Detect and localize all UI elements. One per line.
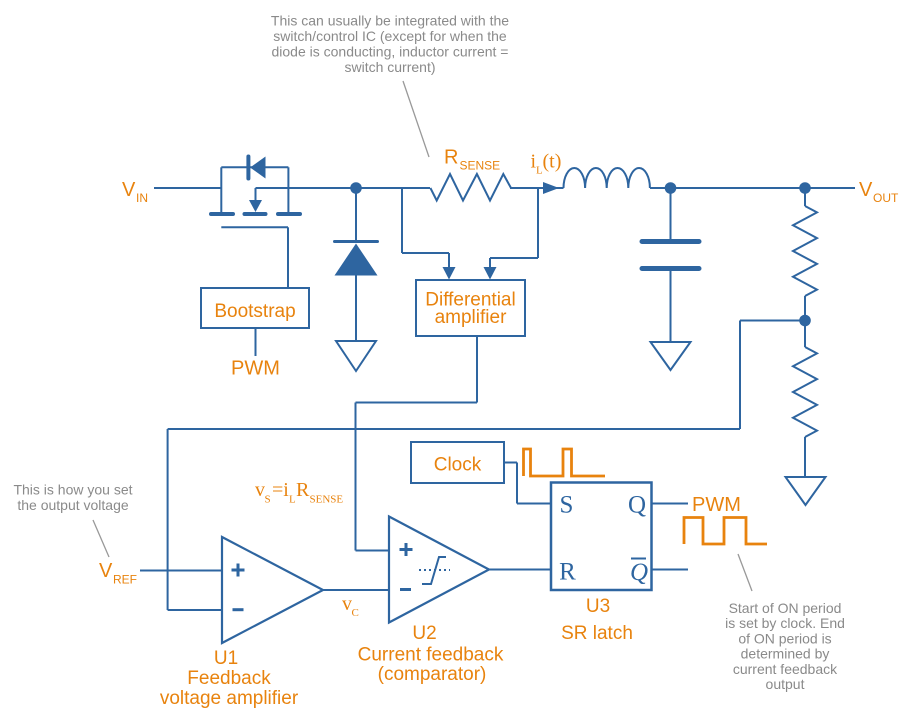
- label vc: [342, 593, 359, 619]
- svg-text:Q: Q: [628, 492, 646, 519]
- label U1: [160, 648, 299, 709]
- annotation left pointer line: [93, 520, 109, 557]
- label U2: [358, 623, 504, 685]
- op-amp U2 comparator: [389, 517, 489, 623]
- node VIN label: [122, 179, 148, 205]
- wire bootstrap PWM stub: [255, 328, 257, 356]
- svg-text:R: R: [444, 147, 458, 169]
- U1 minus input mark: [233, 608, 244, 611]
- node VREF label: [99, 560, 137, 587]
- svg-text:determined by: determined by: [741, 646, 830, 662]
- ground under R2: [786, 477, 826, 505]
- capacitor C1: [642, 188, 699, 341]
- arrow into diff amp right: [484, 267, 497, 280]
- latch U3 box: [551, 483, 652, 591]
- wire Q output: [652, 503, 689, 505]
- node divider top junction: [799, 182, 811, 194]
- wire switch drain to RSENSE: [288, 187, 430, 189]
- svg-text:(comparator): (comparator): [378, 664, 487, 685]
- svg-text:This is how you set: This is how you set: [13, 482, 132, 498]
- svg-text:R: R: [296, 479, 310, 501]
- wire RSENSE to inductor: [510, 187, 564, 189]
- PWM waveform: [684, 518, 767, 545]
- wire U2 output to latch R: [489, 569, 551, 571]
- svg-text:U1: U1: [214, 648, 238, 669]
- wire to R1: [804, 188, 806, 206]
- ground under D1: [336, 341, 376, 371]
- bootstrap block: [201, 288, 309, 328]
- svg-text:This can usually be integrated: This can usually be integrated with the: [271, 13, 509, 29]
- wire VIN to switch: [154, 187, 221, 189]
- svg-text:switch/control IC (except for: switch/control IC (except for when the: [273, 28, 507, 44]
- node capacitor junction: [665, 182, 677, 194]
- wire R1 to node: [804, 296, 806, 347]
- wire VREF to U1: [140, 570, 222, 572]
- svg-text:of ON period is: of ON period is: [738, 630, 831, 646]
- diode D1 (freewheeling): [335, 188, 378, 341]
- svg-text:switch current): switch current): [344, 59, 435, 75]
- pin Qbar: [630, 559, 648, 586]
- wire sense tap right: [490, 188, 538, 269]
- annotation left: [13, 482, 132, 514]
- svg-text:is set by clock. End: is set by clock. End: [725, 615, 845, 631]
- ground under C1: [651, 342, 691, 370]
- label PWM output: [692, 494, 741, 516]
- svg-text:diode is conducting, inductor: diode is conducting, inductor current =: [272, 44, 509, 60]
- svg-text:L: L: [289, 494, 296, 506]
- svg-text:OUT: OUT: [873, 191, 899, 205]
- label differential amplifier: [425, 290, 515, 329]
- svg-text:Q: Q: [630, 559, 648, 586]
- svg-text:V: V: [859, 179, 873, 201]
- svg-text:U2: U2: [412, 623, 436, 644]
- current arrow iL: [543, 182, 559, 194]
- svg-text:=i: =i: [272, 479, 289, 501]
- resistor RSENSE: [430, 174, 511, 201]
- svg-text:SR latch: SR latch: [561, 623, 633, 644]
- label PWM bootstrap input: [231, 358, 280, 380]
- svg-text:the output voltage: the output voltage: [17, 497, 129, 513]
- annotation top pointer line: [403, 81, 429, 157]
- op-amp block differential amplifier: [416, 280, 525, 336]
- svg-text:v: v: [342, 593, 352, 615]
- wire sense tap left: [402, 188, 449, 269]
- label iL(t): [531, 151, 562, 177]
- resistor R1 (divider upper): [793, 206, 817, 296]
- svg-text:C: C: [352, 607, 359, 619]
- resistor R2 (divider lower): [793, 347, 817, 437]
- label bootstrap: [214, 301, 295, 322]
- label VOUT: [859, 179, 899, 205]
- svg-text:V: V: [122, 179, 136, 201]
- svg-text:U3: U3: [586, 596, 610, 617]
- U2 minus input mark: [400, 588, 411, 591]
- svg-text:V: V: [99, 560, 113, 582]
- svg-text:output: output: [766, 676, 805, 692]
- annotation bottom right: [725, 600, 845, 692]
- wire R2 to ground: [804, 437, 806, 477]
- wire U1 output: [323, 589, 389, 591]
- clock waveform: [524, 449, 606, 476]
- svg-text:amplifier: amplifier: [435, 307, 507, 328]
- svg-text:IN: IN: [136, 191, 148, 205]
- node feedback junction: [799, 315, 811, 327]
- label U3: [561, 596, 633, 644]
- U2 plus input mark: [400, 543, 413, 556]
- svg-text:v: v: [255, 479, 265, 501]
- svg-text:Current feedback: Current feedback: [358, 645, 504, 666]
- svg-text:SENSE: SENSE: [460, 159, 501, 173]
- svg-text:(t): (t): [543, 151, 562, 173]
- op-amp U1: [222, 537, 323, 643]
- label clock: [434, 455, 482, 476]
- U2 hysteresis symbol: [419, 557, 450, 584]
- svg-text:SENSE: SENSE: [310, 494, 344, 506]
- U1 plus input mark: [232, 564, 245, 577]
- transistor Q1 (PMOS switch with body diode): [211, 157, 300, 289]
- node switch-diode junction: [350, 182, 362, 194]
- inductor L1: [564, 168, 650, 188]
- svg-text:S: S: [560, 492, 574, 519]
- Qbar overline: [631, 558, 646, 560]
- svg-text:Bootstrap: Bootstrap: [214, 301, 295, 322]
- svg-text:R: R: [559, 559, 576, 586]
- wire feedback from divider to U1: [168, 321, 805, 611]
- label vs = iL RSENSE: [255, 479, 343, 506]
- label RSENSE: [444, 147, 500, 173]
- wire diff amp output to U2: [356, 336, 478, 551]
- svg-text:Start of ON period: Start of ON period: [729, 600, 842, 616]
- svg-text:PWM: PWM: [231, 358, 280, 380]
- svg-text:PWM: PWM: [692, 494, 741, 516]
- annotation bottom pointer line: [738, 554, 752, 591]
- svg-text:REF: REF: [113, 573, 137, 587]
- annotation top: [271, 13, 509, 76]
- wire inductor to VOUT: [650, 187, 855, 189]
- svg-text:Feedback: Feedback: [187, 668, 271, 689]
- svg-text:S: S: [265, 494, 271, 506]
- svg-text:current feedback: current feedback: [733, 661, 838, 677]
- svg-text:Clock: Clock: [434, 455, 482, 476]
- svg-text:voltage amplifier: voltage amplifier: [160, 688, 299, 709]
- wire clock to latch S: [504, 463, 551, 504]
- clock block: [411, 442, 504, 483]
- wire Qbar output: [652, 569, 689, 571]
- arrow into diff amp left: [443, 267, 456, 280]
